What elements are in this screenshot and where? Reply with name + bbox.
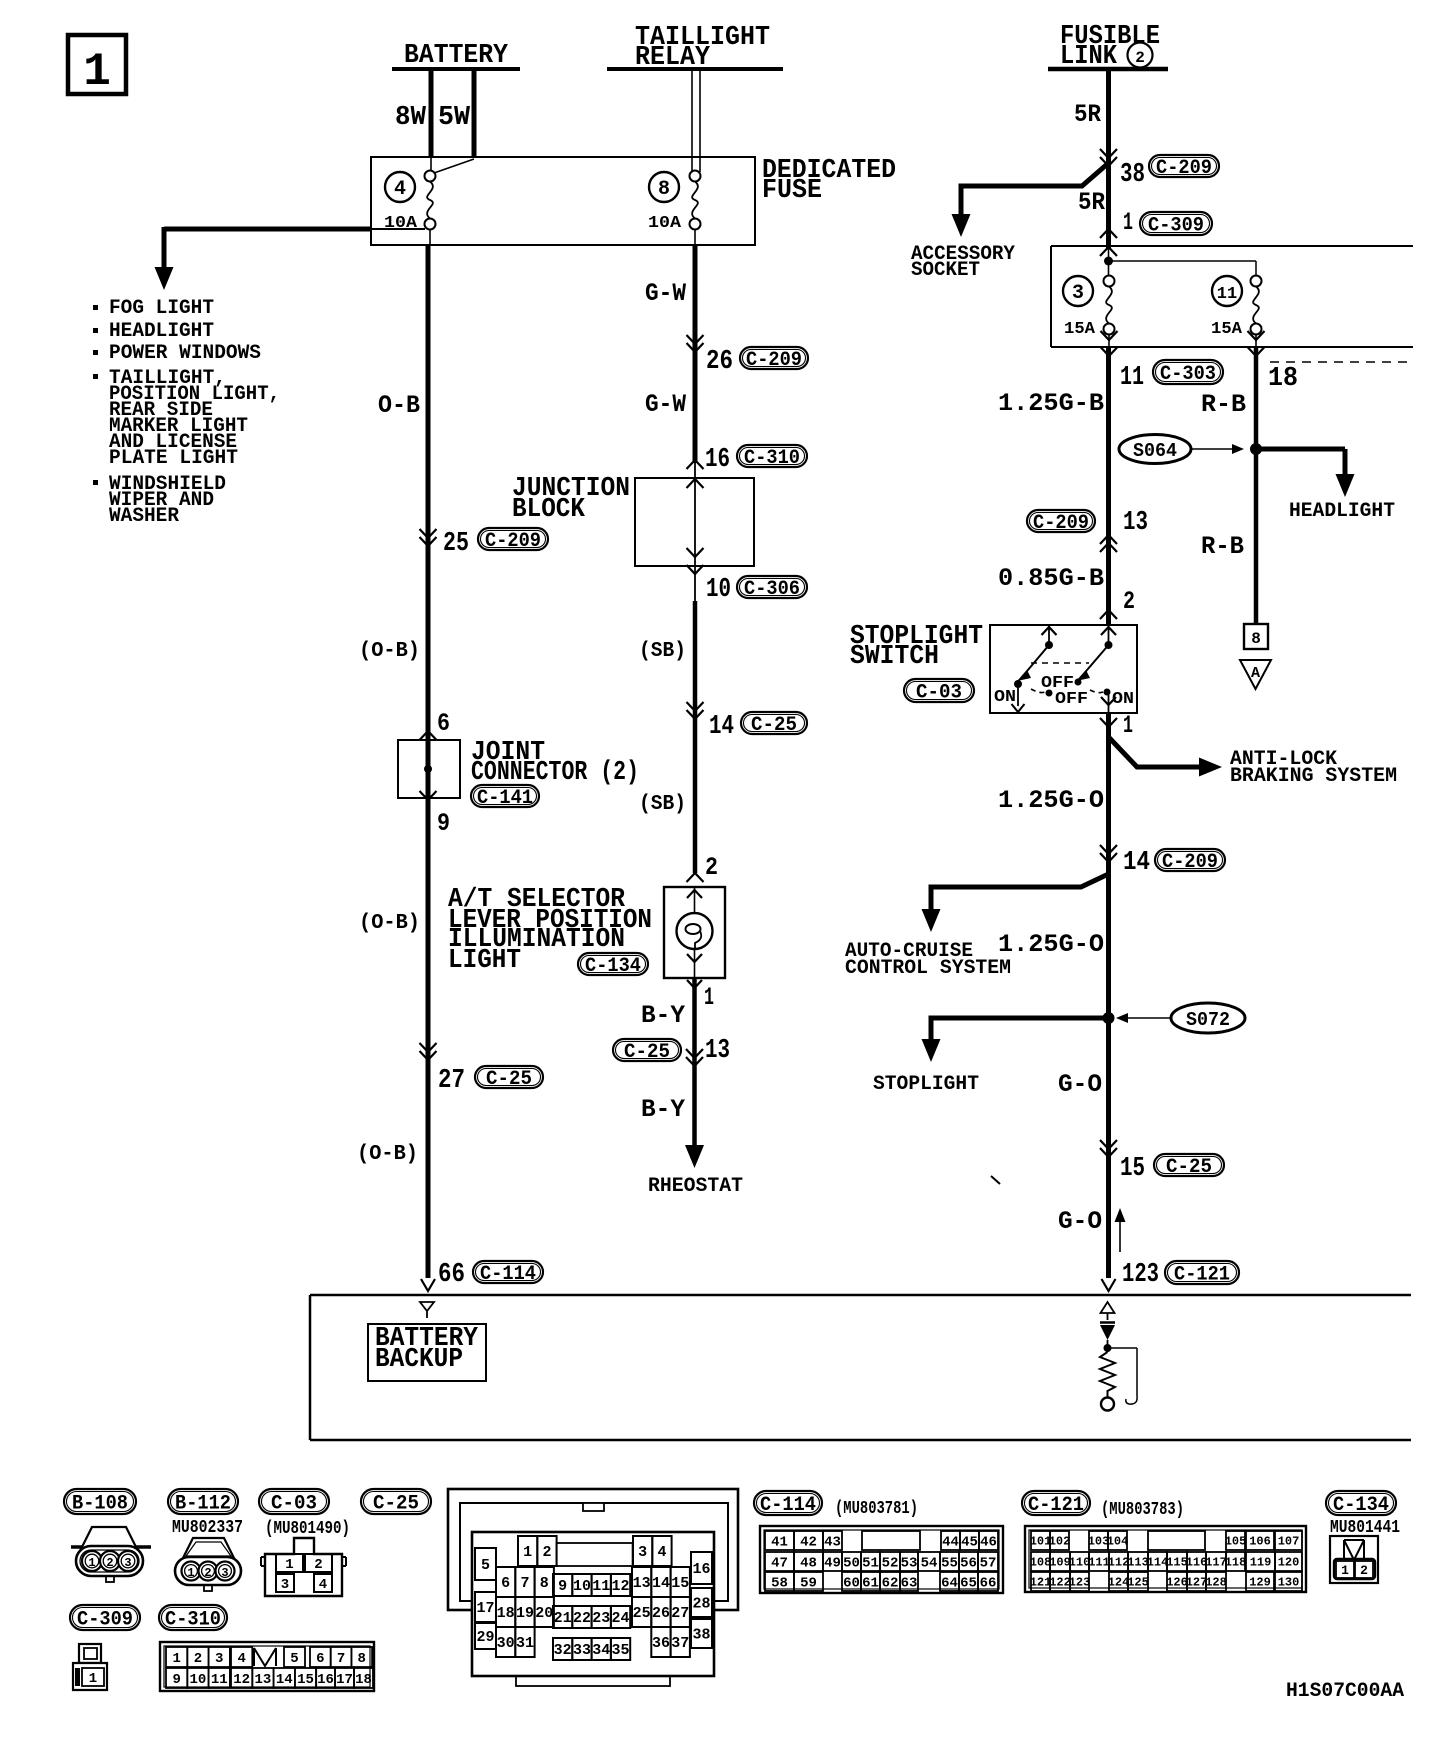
svg-text:G-O: G-O <box>1058 1207 1102 1236</box>
svg-text:15A: 15A <box>1064 320 1096 339</box>
wire G-O below switch <box>1106 713 1111 1278</box>
svg-text:33: 33 <box>573 1642 591 1659</box>
svg-text:17: 17 <box>336 1672 353 1688</box>
svg-text:SWITCH: SWITCH <box>850 642 939 672</box>
svg-text:120: 120 <box>1278 1556 1300 1570</box>
svg-text:49: 49 <box>824 1555 841 1571</box>
svg-text:64: 64 <box>941 1575 958 1591</box>
svg-text:11: 11 <box>592 1578 610 1595</box>
svg-text:11: 11 <box>211 1672 228 1688</box>
svg-text:10A: 10A <box>384 214 418 233</box>
svg-text:C-114: C-114 <box>480 1263 536 1286</box>
connector mark 13 C-25 <box>613 1039 681 1061</box>
svg-text:18: 18 <box>355 1672 372 1688</box>
connector C-310 drawing <box>160 1642 374 1691</box>
svg-text:BRAKING SYSTEM: BRAKING SYSTEM <box>1230 765 1397 788</box>
svg-text:16: 16 <box>692 1561 710 1578</box>
svg-text:56: 56 <box>960 1555 977 1571</box>
wire G-W from fuse 8 <box>693 245 698 463</box>
svg-text:BATTERY: BATTERY <box>404 41 509 71</box>
svg-text:8: 8 <box>358 1651 366 1667</box>
svg-text:RHEOSTAT: RHEOSTAT <box>648 1175 743 1198</box>
junction node in fuse box <box>1108 248 1110 276</box>
connector C-03 drawing <box>265 1538 342 1596</box>
svg-text:44: 44 <box>942 1534 959 1550</box>
fuse 4 10A <box>385 172 415 202</box>
svg-text:2: 2 <box>194 1651 202 1667</box>
svg-text:C-209: C-209 <box>485 530 541 553</box>
connector B-112 drawing <box>182 1538 235 1560</box>
svg-text:C-209: C-209 <box>746 349 802 372</box>
svg-text:C-25: C-25 <box>751 714 797 737</box>
svg-text:C-309: C-309 <box>1148 214 1204 237</box>
svg-text:C-121: C-121 <box>1028 1494 1084 1517</box>
svg-text:18: 18 <box>1268 364 1298 394</box>
connector B-108 drawing <box>71 1545 151 1549</box>
svg-text:62: 62 <box>882 1575 899 1591</box>
branch wire to accessory socket <box>961 163 1109 214</box>
svg-text:12: 12 <box>612 1578 630 1595</box>
fusible link bus bar <box>1048 67 1168 72</box>
svg-text:1: 1 <box>704 983 714 1012</box>
svg-text:54: 54 <box>921 1555 938 1571</box>
svg-text:5: 5 <box>481 1557 490 1574</box>
svg-text:109: 109 <box>1049 1556 1071 1570</box>
svg-text:9: 9 <box>172 1672 180 1688</box>
svg-text:BACKUP: BACKUP <box>375 1345 463 1375</box>
svg-text:63: 63 <box>901 1575 918 1591</box>
svg-text:119: 119 <box>1250 1556 1272 1570</box>
svg-text:61: 61 <box>862 1575 879 1591</box>
svg-text:C-303: C-303 <box>1160 363 1216 386</box>
connector C-114 label <box>754 1491 822 1515</box>
svg-text:55: 55 <box>941 1555 958 1571</box>
svg-text:41: 41 <box>771 1534 788 1550</box>
svg-text:C-114: C-114 <box>760 1494 816 1517</box>
svg-text:3: 3 <box>1072 282 1084 305</box>
connector C-114 drawing <box>760 1526 1003 1593</box>
svg-text:60: 60 <box>843 1575 860 1591</box>
svg-text:ON: ON <box>1112 690 1134 709</box>
svg-text:37: 37 <box>671 1635 689 1652</box>
svg-text:0.85G-B: 0.85G-B <box>998 564 1104 593</box>
svg-text:H1S07C00AA: H1S07C00AA <box>1286 1680 1404 1703</box>
svg-text:S072: S072 <box>1186 1009 1230 1031</box>
svg-text:36: 36 <box>652 1635 670 1652</box>
svg-text:B-112: B-112 <box>175 1492 231 1515</box>
svg-text:123: 123 <box>1069 1576 1091 1590</box>
svg-text:STOPLIGHT: STOPLIGHT <box>873 1073 979 1096</box>
svg-text:65: 65 <box>960 1575 977 1591</box>
svg-text:32: 32 <box>554 1642 572 1659</box>
connector mark 16 C-310 <box>687 460 704 469</box>
svg-text:130: 130 <box>1278 1576 1300 1590</box>
svg-text:C-309: C-309 <box>77 1608 133 1631</box>
svg-text:CONTROL SYSTEM: CONTROL SYSTEM <box>845 957 1011 980</box>
male terminal right <box>1101 1302 1115 1320</box>
svg-text:16: 16 <box>317 1672 334 1688</box>
connector C-25 label <box>361 1489 431 1514</box>
connector C-03 label <box>259 1489 329 1514</box>
svg-text:6: 6 <box>316 1651 324 1667</box>
connector mark 15 C-25 <box>1100 1148 1117 1157</box>
svg-text:129: 129 <box>1249 1576 1271 1590</box>
battery bus bar <box>392 67 520 71</box>
svg-text:S064: S064 <box>1133 440 1177 462</box>
svg-text:25: 25 <box>443 529 469 559</box>
svg-text:104: 104 <box>1107 1535 1129 1549</box>
svg-text:13: 13 <box>633 1575 651 1592</box>
wire 5W from battery <box>472 69 477 158</box>
svg-text:B-108: B-108 <box>72 1492 128 1515</box>
double wire from taillight relay to fuse 8 <box>691 69 693 172</box>
svg-text:C-209: C-209 <box>1033 512 1089 535</box>
svg-text:28: 28 <box>692 1596 710 1613</box>
svg-text:126: 126 <box>1166 1576 1188 1590</box>
svg-text:4: 4 <box>319 1577 327 1593</box>
svg-text:58: 58 <box>771 1575 788 1591</box>
svg-text:24: 24 <box>612 1610 630 1627</box>
svg-text:(MU801490): (MU801490) <box>265 1519 350 1539</box>
svg-text:26: 26 <box>652 1605 670 1622</box>
wire 5R <box>1106 69 1111 248</box>
svg-text:123: 123 <box>1122 1260 1159 1290</box>
arrow to accessory socket <box>952 214 971 237</box>
diagonal link 5W to fuse 4 <box>434 159 474 173</box>
svg-text:B-Y: B-Y <box>641 1001 685 1030</box>
headlight branch wire R-B <box>1254 347 1259 623</box>
connector B-108 label <box>64 1489 136 1514</box>
svg-text:107: 107 <box>1278 1535 1300 1549</box>
arrow to rheostat <box>685 1145 704 1168</box>
branch to anti-lock braking system <box>1109 737 1200 767</box>
svg-text:8: 8 <box>540 1575 549 1592</box>
svg-text:C-25: C-25 <box>624 1041 670 1064</box>
off-page connector 8 A <box>1244 624 1268 649</box>
connector C-309 drawing <box>79 1644 101 1663</box>
fuse 11 15A <box>1212 276 1242 306</box>
A/T selector lever position illumination light C-134 <box>664 887 725 978</box>
svg-text:11: 11 <box>1217 285 1237 304</box>
svg-text:2: 2 <box>1123 587 1135 616</box>
svg-text:1: 1 <box>1341 1563 1349 1578</box>
svg-text:C-141: C-141 <box>477 787 533 810</box>
link to fuse 11 <box>1109 260 1257 262</box>
svg-text:7: 7 <box>520 1575 529 1592</box>
svg-text:5R: 5R <box>1078 188 1105 217</box>
svg-text:B-Y: B-Y <box>641 1095 685 1124</box>
svg-text:105: 105 <box>1225 1535 1247 1549</box>
svg-text:1: 1 <box>172 1651 180 1667</box>
connector C-310 label <box>159 1605 227 1630</box>
svg-text:45: 45 <box>961 1534 978 1550</box>
svg-text:14: 14 <box>709 712 734 742</box>
svg-text:1.25G-B: 1.25G-B <box>998 389 1104 418</box>
svg-text:38: 38 <box>692 1627 710 1644</box>
svg-text:50: 50 <box>843 1555 860 1571</box>
svg-text:HEADLIGHT: HEADLIGHT <box>1289 500 1395 523</box>
svg-text:C-25: C-25 <box>1166 1156 1212 1179</box>
female terminal right at body wiring box <box>1102 1279 1116 1291</box>
svg-text:PLATE LIGHT: PLATE LIGHT <box>109 447 238 470</box>
svg-text:27: 27 <box>438 1066 465 1096</box>
svg-text:MU802337: MU802337 <box>172 1518 243 1538</box>
svg-text:HEADLIGHT: HEADLIGHT <box>109 320 214 343</box>
svg-text:C-25: C-25 <box>486 1068 532 1091</box>
connector C-134 label <box>1326 1491 1396 1515</box>
svg-text:108: 108 <box>1030 1556 1052 1570</box>
svg-text:114: 114 <box>1147 1556 1169 1570</box>
svg-text:4: 4 <box>394 178 406 201</box>
wire SB <box>693 601 698 873</box>
svg-text:43: 43 <box>824 1534 841 1550</box>
svg-text:106: 106 <box>1249 1535 1271 1549</box>
wire G-B main right vertical <box>1106 347 1111 625</box>
svg-text:17: 17 <box>476 1600 494 1617</box>
page number box 1 <box>68 35 126 94</box>
svg-text:48: 48 <box>800 1555 817 1571</box>
svg-text:1: 1 <box>88 1556 95 1570</box>
svg-text:FOG LIGHT: FOG LIGHT <box>109 297 214 320</box>
connector C-121 drawing <box>1025 1526 1306 1592</box>
svg-text:C-306: C-306 <box>744 578 800 601</box>
stray mark <box>991 1176 1000 1184</box>
pin 2 of C-134 lamp <box>687 873 704 882</box>
connector mark 27 C-25 <box>420 1051 437 1060</box>
svg-text:C-310: C-310 <box>744 447 800 470</box>
svg-text:31: 31 <box>516 1635 534 1652</box>
svg-text:9: 9 <box>437 809 450 838</box>
svg-text:WASHER: WASHER <box>109 505 179 528</box>
connector C-25 drawing <box>448 1489 738 1610</box>
svg-text:10A: 10A <box>648 214 682 233</box>
svg-text:15: 15 <box>297 1672 314 1688</box>
svg-text:FUSE: FUSE <box>762 176 822 206</box>
pin 9 <box>420 791 437 800</box>
svg-text:2: 2 <box>204 1566 211 1580</box>
svg-text:1: 1 <box>187 1566 194 1580</box>
svg-text:112: 112 <box>1108 1556 1130 1570</box>
svg-text:59: 59 <box>800 1575 817 1591</box>
svg-text:1: 1 <box>83 46 111 98</box>
svg-text:1: 1 <box>1123 208 1133 237</box>
svg-text:66: 66 <box>438 1260 465 1290</box>
svg-text:13: 13 <box>255 1672 272 1688</box>
svg-text:2: 2 <box>705 853 718 882</box>
svg-text:53: 53 <box>901 1555 918 1571</box>
svg-text:4: 4 <box>237 1651 245 1667</box>
male terminal to battery backup <box>420 1302 434 1318</box>
svg-text:8: 8 <box>1251 630 1261 648</box>
svg-text:1: 1 <box>89 1671 97 1687</box>
battery backup box <box>368 1324 486 1381</box>
svg-text:R-B: R-B <box>1201 390 1246 419</box>
direction arrow up <box>1119 1212 1121 1252</box>
splice S072 <box>1103 1012 1115 1024</box>
svg-text:C-134: C-134 <box>585 955 641 978</box>
svg-text:118: 118 <box>1225 1556 1247 1570</box>
svg-text:11: 11 <box>1120 363 1144 393</box>
svg-text:122: 122 <box>1049 1576 1071 1590</box>
splice S064 <box>1119 435 1191 464</box>
svg-text:113: 113 <box>1127 1556 1149 1570</box>
svg-text:C-03: C-03 <box>916 681 962 704</box>
svg-text:57: 57 <box>980 1555 997 1571</box>
connector C-309 label <box>70 1605 140 1630</box>
svg-text:8W: 8W <box>395 103 427 133</box>
svg-text:2: 2 <box>1360 1563 1368 1578</box>
female terminal at body wiring box <box>421 1279 435 1291</box>
svg-text:26: 26 <box>706 347 733 377</box>
connector C-121 label <box>1022 1491 1090 1515</box>
svg-text:42: 42 <box>800 1534 817 1550</box>
svg-text:CONNECTOR (2): CONNECTOR (2) <box>471 758 639 788</box>
svg-text:1.25G-O: 1.25G-O <box>998 930 1104 959</box>
svg-text:14: 14 <box>276 1672 293 1688</box>
svg-text:10: 10 <box>706 575 731 605</box>
body wiring box (open right) <box>310 1294 1411 1297</box>
svg-text:66: 66 <box>980 1575 997 1591</box>
svg-text:19: 19 <box>516 1605 534 1622</box>
svg-text:G-W: G-W <box>645 390 686 419</box>
svg-text:34: 34 <box>592 1642 610 1659</box>
svg-text:1: 1 <box>1123 711 1133 740</box>
svg-text:3: 3 <box>124 1556 131 1570</box>
svg-text:C-134: C-134 <box>1333 1494 1389 1517</box>
svg-text:OFF: OFF <box>1055 690 1088 709</box>
wire O-B main left vertical <box>426 245 431 1278</box>
stoplight switch box C-03 <box>990 625 1137 713</box>
svg-text:115: 115 <box>1166 1556 1188 1570</box>
svg-text:(O-B): (O-B) <box>357 1143 418 1166</box>
svg-text:15: 15 <box>671 1575 689 1592</box>
connector C-134 drawing <box>1330 1536 1378 1583</box>
svg-text:(SB): (SB) <box>639 640 686 663</box>
svg-text:128: 128 <box>1205 1576 1227 1590</box>
connector B-112 label <box>168 1489 238 1514</box>
stoplight switch contacts <box>1101 627 1116 635</box>
bypass wire with hook <box>1108 1347 1138 1349</box>
svg-text:C-310: C-310 <box>165 1608 221 1631</box>
svg-text:46: 46 <box>980 1534 997 1550</box>
svg-text:1: 1 <box>523 1544 532 1561</box>
svg-text:5W: 5W <box>438 103 471 133</box>
svg-text:6: 6 <box>437 709 450 738</box>
svg-text:12: 12 <box>233 1672 250 1688</box>
svg-text:23: 23 <box>592 1610 610 1627</box>
svg-text:102: 102 <box>1049 1535 1071 1549</box>
svg-text:7: 7 <box>337 1651 345 1667</box>
svg-text:POWER WINDOWS: POWER WINDOWS <box>109 342 261 365</box>
svg-text:27: 27 <box>671 1605 689 1622</box>
wire stub 8W inside fuse box <box>430 158 432 171</box>
svg-text:2: 2 <box>1135 49 1145 67</box>
svg-text:ON: ON <box>994 688 1016 707</box>
fuse 8 10A <box>649 172 679 202</box>
fuse 3 15A <box>1063 276 1093 306</box>
svg-text:C-209: C-209 <box>1156 157 1212 180</box>
connector mark 25 C-209 <box>420 537 437 546</box>
svg-text:121: 121 <box>1030 1576 1052 1590</box>
connector mark 38 C-209 <box>1100 157 1117 166</box>
svg-text:15A: 15A <box>1211 320 1243 339</box>
svg-text:C-03: C-03 <box>271 1492 317 1515</box>
wire through junction block <box>694 463 696 601</box>
svg-text:8: 8 <box>658 178 670 201</box>
pin 1 stoplight switch <box>1100 718 1117 727</box>
svg-text:3: 3 <box>215 1651 223 1667</box>
wire branch to accessories <box>164 227 371 232</box>
svg-text:30: 30 <box>497 1635 515 1652</box>
connector mark 26 C-209 <box>687 343 704 352</box>
svg-text:G-W: G-W <box>645 279 686 308</box>
svg-text:2: 2 <box>542 1544 551 1561</box>
svg-text:4: 4 <box>657 1544 666 1561</box>
svg-text:(SB): (SB) <box>639 793 686 816</box>
svg-text:C-121: C-121 <box>1174 1263 1230 1286</box>
svg-text:G-O: G-O <box>1058 1070 1102 1099</box>
svg-text:38: 38 <box>1120 160 1145 190</box>
pin 6 <box>420 731 437 740</box>
wire B-Y to rheostat <box>692 978 697 1146</box>
svg-text:C-25: C-25 <box>373 1492 419 1515</box>
svg-text:9: 9 <box>558 1578 567 1595</box>
svg-text:25: 25 <box>633 1605 651 1622</box>
svg-text:3: 3 <box>281 1577 289 1593</box>
dashed continuation line <box>1270 361 1412 363</box>
svg-text:20: 20 <box>535 1605 553 1622</box>
terminal circle <box>1101 1398 1114 1411</box>
svg-text:51: 51 <box>862 1555 879 1571</box>
svg-text:16: 16 <box>705 445 730 475</box>
svg-text:2: 2 <box>314 1557 322 1573</box>
svg-text:10: 10 <box>190 1672 207 1688</box>
svg-text:116: 116 <box>1186 1556 1208 1570</box>
svg-text:(MU803781): (MU803781) <box>835 1499 918 1519</box>
accessory fuse box (open right) <box>1051 245 1413 247</box>
svg-text:(O-B): (O-B) <box>359 912 420 935</box>
svg-text:R-B: R-B <box>1201 532 1244 561</box>
diode <box>1100 1321 1115 1324</box>
branch to auto-cruise control system <box>931 874 1109 909</box>
svg-text:52: 52 <box>882 1555 899 1571</box>
arrow to accessory list <box>155 267 174 290</box>
svg-text:SOCKET: SOCKET <box>911 259 980 282</box>
svg-text:(MU803783): (MU803783) <box>1101 1500 1184 1520</box>
svg-text:6: 6 <box>501 1575 510 1592</box>
junction block <box>635 478 754 566</box>
wire 8W from battery to fuse 4 <box>429 69 434 158</box>
joint connector (2) C-141 <box>398 740 460 798</box>
svg-text:C-209: C-209 <box>1162 851 1218 874</box>
taillight relay bus bar <box>607 67 783 71</box>
svg-text:LIGHT: LIGHT <box>448 946 521 976</box>
svg-text:125: 125 <box>1127 1576 1149 1590</box>
svg-text:(O-B): (O-B) <box>359 640 420 663</box>
dedicated fuse box <box>371 157 755 245</box>
svg-text:3: 3 <box>221 1566 228 1580</box>
svg-text:3: 3 <box>638 1544 647 1561</box>
svg-text:47: 47 <box>771 1555 788 1571</box>
svg-text:5: 5 <box>290 1651 298 1667</box>
svg-text:10: 10 <box>573 1578 591 1595</box>
svg-text:110: 110 <box>1069 1556 1091 1570</box>
svg-text:127: 127 <box>1186 1576 1208 1590</box>
svg-text:13: 13 <box>1123 508 1148 538</box>
svg-text:BLOCK: BLOCK <box>512 495 586 525</box>
svg-text:15: 15 <box>1120 1154 1145 1184</box>
list bullets <box>93 305 98 310</box>
